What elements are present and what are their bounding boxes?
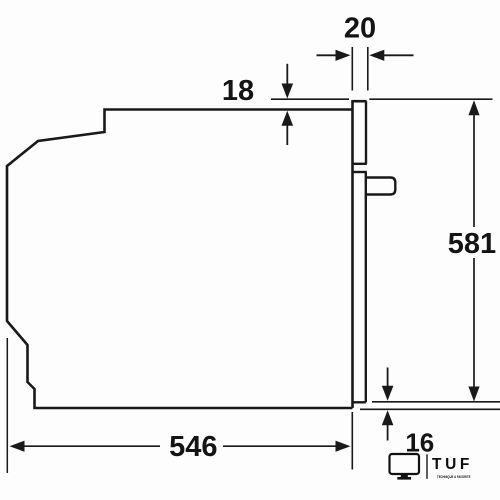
svg-text:TECHNIQUE & FAVORITE: TECHNIQUE & FAVORITE	[437, 475, 471, 479]
svg-text:20: 20	[344, 13, 376, 45]
svg-text:18: 18	[222, 75, 254, 107]
svg-text:TUF: TUF	[432, 456, 473, 473]
svg-text:581: 581	[448, 228, 496, 260]
svg-text:546: 546	[169, 431, 217, 463]
